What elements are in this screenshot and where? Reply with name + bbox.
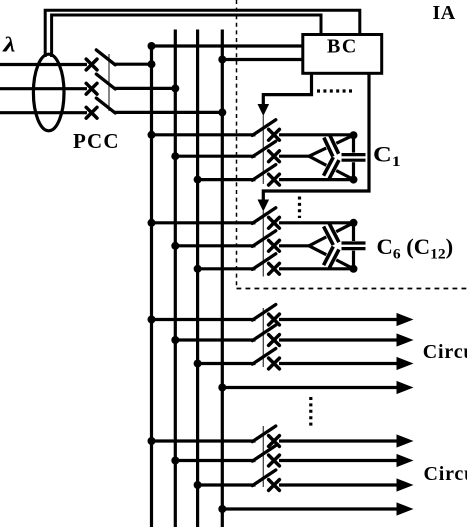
- svg-text:BC: BC: [327, 36, 358, 58]
- svg-text:IA: IA: [433, 2, 456, 24]
- svg-text:Circuits: Circuits: [424, 463, 467, 485]
- svg-text:Circuits: Circuits: [423, 341, 467, 363]
- svg-text:PCC: PCC: [73, 129, 120, 153]
- svg-text:λ: λ: [2, 34, 16, 57]
